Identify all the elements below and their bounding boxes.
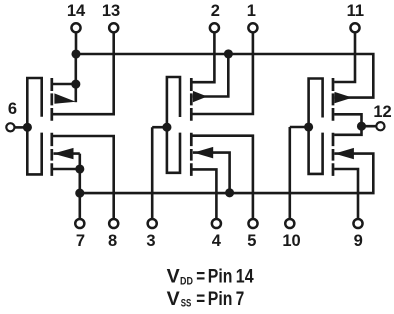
svg-text:V: V bbox=[167, 266, 180, 288]
svg-text:V: V bbox=[167, 288, 180, 310]
svg-text:11: 11 bbox=[347, 2, 364, 20]
svg-text:7: 7 bbox=[76, 232, 85, 250]
svg-text:=: = bbox=[196, 288, 205, 310]
svg-text:SS: SS bbox=[181, 298, 192, 310]
svg-text:10: 10 bbox=[282, 232, 300, 250]
svg-text:=: = bbox=[196, 266, 205, 288]
svg-text:4: 4 bbox=[212, 232, 222, 250]
svg-text:DD: DD bbox=[180, 275, 193, 287]
svg-text:13: 13 bbox=[102, 2, 120, 20]
svg-text:5: 5 bbox=[247, 232, 256, 250]
svg-text:12: 12 bbox=[373, 103, 391, 121]
svg-text:8: 8 bbox=[108, 232, 117, 250]
svg-text:3: 3 bbox=[146, 232, 155, 250]
svg-text:9: 9 bbox=[354, 232, 363, 250]
svg-text:14: 14 bbox=[67, 2, 86, 20]
svg-text:6: 6 bbox=[8, 100, 17, 118]
svg-text:14: 14 bbox=[236, 266, 254, 288]
svg-text:1: 1 bbox=[247, 2, 256, 20]
svg-text:7: 7 bbox=[236, 288, 245, 310]
svg-text:Pin: Pin bbox=[208, 266, 233, 288]
svg-text:2: 2 bbox=[211, 2, 220, 20]
svg-text:Pin: Pin bbox=[208, 288, 233, 310]
